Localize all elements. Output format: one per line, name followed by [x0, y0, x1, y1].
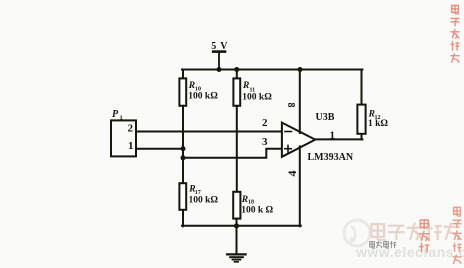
wire op-amp output to R12	[315, 138, 362, 140]
label U3B	[316, 112, 335, 123]
op-amp plus sign	[285, 145, 292, 152]
wire R11 bottom to R18 top	[236, 106, 238, 192]
resistor R11	[233, 78, 240, 105]
junction dot 5V on rail	[217, 67, 222, 72]
svg-text:100 k Ω: 100 k Ω	[241, 205, 273, 215]
wire R18 bottom to ground rail	[236, 219, 238, 227]
svg-text:2: 2	[128, 123, 134, 135]
svg-text:U3B: U3B	[316, 112, 335, 123]
watermark small text 电源联盟	[370, 241, 397, 248]
resistor R10	[179, 78, 186, 105]
label R10 100 kOhm	[188, 81, 218, 101]
svg-text:1: 1	[128, 140, 134, 152]
wire P1 pin1 to node	[136, 148, 183, 150]
pin label 4 (rotated)	[285, 171, 299, 177]
junction dot node plus-line	[181, 155, 186, 160]
watermark logo circle (bottom right)	[344, 220, 370, 246]
wire rail to R10	[182, 70, 184, 79]
junction dot R11 top on rail	[234, 67, 239, 72]
watermark text www.elecfans.com	[355, 244, 464, 260]
watermark text 电子发烧友	[372, 223, 461, 241]
svg-text:5 V: 5 V	[211, 41, 228, 52]
wire P1 pin2 to op-amp inverting input	[136, 131, 282, 133]
junction dot node pin1	[181, 146, 186, 151]
pin label 2 of P1	[128, 123, 134, 135]
svg-text:2: 2	[262, 117, 268, 129]
op-amp minus sign	[285, 131, 292, 133]
svg-text:R: R	[242, 81, 249, 91]
connector P1	[111, 120, 136, 156]
wire pin8 to rail	[299, 70, 301, 134]
op-amp U3B triangle	[282, 123, 315, 157]
wire R12 bottom stub	[361, 134, 363, 140]
label R17 100 kOhm	[188, 185, 218, 206]
ground	[227, 226, 245, 262]
pin label 3 op-amp	[262, 136, 268, 148]
wire rail to R12 top	[361, 70, 363, 105]
wire node to op-amp non-inverting input (with jog)	[183, 149, 282, 158]
junction dot pin8 on rail	[298, 67, 303, 72]
watermark vertical red text bottom right	[453, 207, 462, 265]
wire rail to R11	[236, 70, 238, 79]
wire R10 bottom to node column	[182, 106, 184, 183]
power symbol 5V bar	[213, 52, 225, 70]
label P1	[112, 109, 123, 122]
watermark red text inner bottom right	[419, 219, 430, 253]
label LM393AN	[308, 152, 354, 163]
label R18 100 kOhm	[241, 195, 274, 215]
label R11 100 kOhm	[242, 81, 272, 102]
pin label 1 op-amp	[330, 130, 336, 142]
junction dot ground rail	[234, 223, 239, 228]
svg-text:LM393AN: LM393AN	[308, 152, 354, 163]
svg-text:1: 1	[120, 115, 123, 122]
label 5 V	[211, 41, 228, 52]
svg-text:100 kΩ: 100 kΩ	[189, 196, 219, 206]
svg-text:4: 4	[285, 171, 299, 177]
svg-text:3: 3	[262, 136, 268, 148]
svg-text:R: R	[241, 195, 248, 205]
wire R17 bottom to ground rail	[182, 210, 184, 227]
svg-text:www.elecfans.com: www.elecfans.com	[355, 244, 464, 260]
svg-text:100 kΩ: 100 kΩ	[242, 92, 272, 102]
resistor R17	[179, 183, 186, 210]
resistor R12	[357, 105, 365, 134]
wire pin4 to ground rail	[299, 146, 301, 226]
pin label 2 op-amp	[262, 117, 268, 129]
svg-text:P: P	[112, 109, 119, 120]
wire top supply rail	[182, 69, 362, 71]
svg-text:8: 8	[285, 103, 296, 108]
label R12 1 kOhm	[368, 110, 389, 130]
svg-text:100 kΩ: 100 kΩ	[188, 91, 218, 101]
svg-text:1 kΩ: 1 kΩ	[368, 119, 388, 129]
pin label 1 of P1	[128, 140, 134, 152]
pin label 8 (rotated)	[285, 103, 296, 108]
watermark vertical red text top right	[451, 5, 460, 63]
resistor R18	[233, 192, 240, 219]
wire bottom ground rail	[182, 225, 301, 227]
